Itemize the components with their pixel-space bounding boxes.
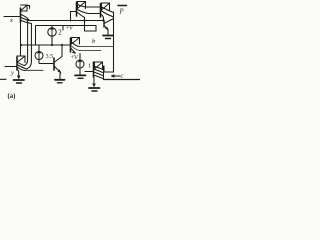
wire second bus y=25.5 with hook (T2 emitter return) bbox=[36, 18, 97, 46]
junction dot (52,45) bbox=[51, 44, 53, 46]
wire mid bus y=45 bbox=[21, 44, 71, 46]
T4 emitter bbox=[71, 49, 75, 54]
T3 emitter down to bus bbox=[102, 15, 104, 21]
junction dot (62,45) bbox=[61, 44, 63, 46]
stray mark bottom-left bbox=[0, 78, 6, 80]
wire I1 bottom to ground bbox=[79, 68, 81, 75]
T3 base bar bbox=[100, 4, 102, 18]
ground G3 (under Q3) bbox=[55, 80, 65, 83]
wire vertical collector line B down to T-y bbox=[27, 24, 32, 70]
transistor T4 (middle, multi-collector) bbox=[71, 38, 102, 54]
T1 collector box bbox=[21, 5, 30, 11]
T5 base bar bbox=[93, 62, 95, 77]
wire b bus bbox=[79, 46, 114, 48]
current arrow near c bbox=[111, 75, 120, 78]
T5 collector rail down to output bus bbox=[103, 66, 105, 80]
svg-text:c: c bbox=[121, 73, 124, 80]
T-y base bar bbox=[16, 57, 18, 70]
transistor Q3 (driven by 3.5mA source) bbox=[54, 45, 62, 73]
T-y fan bbox=[18, 63, 25, 66]
wire vertical from T1 emitter down to T-y box bbox=[20, 22, 22, 56]
svg-text:3.5: 3.5 bbox=[46, 53, 54, 60]
T1 base bar bbox=[20, 8, 22, 22]
T1 collector fan bbox=[21, 15, 29, 21]
wire vertical collector line A down to T-y bbox=[25, 20, 28, 66]
wire T2 base from +V bbox=[71, 11, 77, 13]
T3 collector box bbox=[102, 3, 110, 10]
svg-text:x: x bbox=[9, 17, 13, 24]
wire I3 bottom bbox=[39, 60, 54, 64]
transistor T6 (small, at bus junction) bbox=[104, 19, 114, 35]
current source I1 (1 mA injector) bbox=[76, 59, 91, 75]
svg-text:P: P bbox=[119, 9, 124, 16]
T5 base wire bbox=[85, 71, 94, 73]
T4 fan bbox=[72, 42, 80, 47]
ground G4 (under I1) bbox=[75, 75, 86, 78]
T2 emitter bbox=[78, 13, 85, 18]
current source I2 (2 mA injector) bbox=[48, 26, 62, 46]
junction dot (21,45) bbox=[20, 44, 22, 46]
transistor T1 (input x, multi-collector) bbox=[4, 5, 31, 24]
junction dot (103.5,20.5) bbox=[102, 19, 104, 21]
wire output bus to c bbox=[104, 79, 141, 81]
T5 emitter down bbox=[93, 77, 95, 86]
wire from T-y fan extending right bbox=[25, 69, 43, 71]
svg-text:1: 1 bbox=[88, 63, 91, 70]
T-y emitter down bbox=[17, 70, 20, 78]
svg-text:+V: +V bbox=[71, 55, 79, 61]
wire stub at x=63 from bus y=25.5 bbox=[62, 26, 64, 31]
ground G1 (under T-y) bbox=[14, 80, 25, 83]
wire top bus y=20 bbox=[29, 20, 104, 22]
T-y collector box bbox=[17, 56, 25, 63]
wire I2 down to mid bus bbox=[51, 36, 53, 45]
wire Q3 emitter down bbox=[59, 73, 62, 80]
ground G5 (right middle) bbox=[103, 36, 113, 39]
wire right rail x=113.5 bbox=[104, 12, 114, 72]
wire I3 top to mid bus bbox=[38, 45, 40, 52]
T4 collector box bbox=[72, 38, 80, 45]
junction dot (84.5,20.5) bbox=[83, 19, 85, 21]
svg-text:2: 2 bbox=[58, 28, 62, 37]
T4 base bar bbox=[70, 38, 72, 52]
T2 collector fan to Q-right bbox=[78, 5, 100, 8]
svg-text:(a): (a) bbox=[8, 93, 16, 100]
T2 base bar bbox=[76, 2, 78, 16]
svg-text:y: y bbox=[10, 70, 14, 77]
wire +V stub to I1 bbox=[79, 54, 81, 61]
transistor T5 (bottom right, multi-collector) bbox=[85, 62, 104, 87]
wire I2 top stub bbox=[51, 26, 53, 28]
T3 collector fan to right rail bbox=[102, 7, 114, 13]
transistor T2 (top middle, multi-collector) bbox=[66, 2, 101, 32]
wire base of T1 bbox=[4, 16, 20, 18]
wire base of T-y bbox=[5, 66, 17, 68]
current source I3 (3.5 mA injector) bbox=[35, 45, 54, 64]
svg-text:+V: +V bbox=[66, 26, 74, 32]
T5 fan bbox=[95, 66, 104, 70]
svg-text:b: b bbox=[92, 38, 96, 45]
ground G6 (under T5) bbox=[89, 88, 100, 91]
label P-bar bbox=[118, 6, 127, 16]
T5 collector box bbox=[95, 62, 103, 69]
transistor T-y (input y, multi-collector) bbox=[5, 56, 27, 79]
T2 collector box bbox=[78, 2, 86, 9]
transistor T3 (top right, multi-collector) bbox=[101, 3, 114, 21]
